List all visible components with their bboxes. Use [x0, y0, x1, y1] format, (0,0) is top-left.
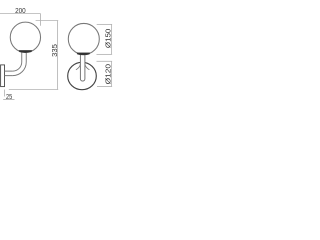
globe (side view): [10, 22, 40, 52]
wall plate (side view): [1, 65, 5, 87]
arm bend inner arc: [13, 62, 22, 71]
dimension 200 line: [0, 13, 40, 15]
stem tube (front view, white filled U): [80, 55, 85, 82]
dimension D120 bottom extension: [97, 86, 112, 88]
svg-text:200: 200: [15, 7, 26, 15]
svg-text:335: 335: [51, 44, 59, 57]
arm tube horizontal lines: [5, 71, 13, 76]
arm bend shoulders (front view): [76, 64, 90, 70]
base plate circle (front view): [68, 62, 97, 89]
dimension 25 extension: [4, 90, 6, 97]
dimension 200 right extension: [40, 14, 42, 26]
dimension D150 line: [111, 24, 113, 54]
dimension 335 bottom extension: [9, 89, 58, 91]
dimension D120 line: [111, 61, 113, 86]
globe (front view): [68, 23, 99, 54]
svg-text:Ø150: Ø150: [104, 29, 112, 48]
fitter (side view, dark cap): [19, 50, 32, 52]
dimension 25 underline: [3, 99, 14, 101]
fitter (front view, dark cap): [77, 53, 90, 55]
arm bend outer arc: [13, 62, 27, 76]
stem lines (side view): [22, 52, 27, 62]
dimension D120 top extension: [97, 60, 113, 62]
dimension D150 top extension: [97, 23, 112, 25]
background: [0, 0, 114, 114]
svg-text:25: 25: [6, 93, 12, 101]
svg-text:Ø120: Ø120: [104, 64, 112, 84]
dimension 335 line: [57, 21, 59, 90]
dimension D150 bottom extension: [97, 53, 113, 55]
dimension 335 top extension: [36, 20, 59, 22]
